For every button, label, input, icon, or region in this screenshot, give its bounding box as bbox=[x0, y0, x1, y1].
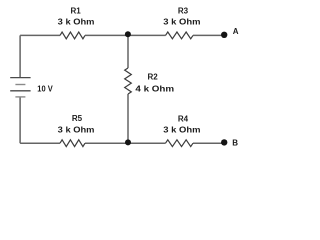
wire R5 to bottom junction bbox=[85, 142, 128, 144]
wire middle vertical upper (top junction to R2) bbox=[127, 35, 129, 68]
resistor R2 bbox=[125, 68, 132, 94]
wire R1 to top junction bbox=[85, 34, 128, 36]
svg-text:3 k Ohm: 3 k Ohm bbox=[163, 125, 200, 134]
svg-text:R4: R4 bbox=[178, 114, 189, 123]
wire R4 to terminal B bbox=[193, 142, 224, 144]
wire R3 to terminal A bbox=[193, 34, 224, 36]
wire top junction to R3 bbox=[128, 34, 166, 36]
junction node bottom bbox=[125, 139, 131, 145]
wire bottom junction to R4 bbox=[128, 142, 166, 144]
svg-text:R3: R3 bbox=[178, 6, 189, 15]
wire left vertical upper (top corner to battery) bbox=[19, 35, 21, 77]
wire left vertical lower (battery to bottom corner) bbox=[19, 97, 21, 143]
svg-text:R2: R2 bbox=[147, 72, 158, 81]
wire top-left horizontal (battery top to R1) bbox=[20, 34, 60, 36]
terminal A dot bbox=[221, 32, 227, 38]
wire middle vertical lower (R2 to bottom junction) bbox=[127, 94, 129, 143]
terminal B dot bbox=[221, 139, 227, 145]
svg-text:B: B bbox=[232, 138, 238, 147]
resistor R4 bbox=[166, 140, 194, 147]
battery plate long lower bbox=[10, 90, 30, 92]
battery plate long top bbox=[10, 77, 30, 79]
svg-text:R5: R5 bbox=[72, 114, 83, 123]
resistor R5 bbox=[60, 140, 85, 147]
resistor R1 bbox=[60, 32, 85, 39]
svg-text:A: A bbox=[233, 27, 239, 36]
resistor R3 bbox=[166, 32, 194, 39]
battery plate short bottom bbox=[15, 96, 25, 98]
svg-text:3 k Ohm: 3 k Ohm bbox=[58, 18, 95, 27]
svg-text:4 k Ohm: 4 k Ohm bbox=[135, 85, 174, 94]
battery plate short upper bbox=[15, 84, 25, 86]
battery V1 10 V bbox=[10, 78, 30, 97]
svg-text:3 k Ohm: 3 k Ohm bbox=[58, 125, 95, 134]
svg-text:10 V: 10 V bbox=[37, 84, 53, 93]
svg-text:3 k Ohm: 3 k Ohm bbox=[163, 17, 200, 26]
junction node top bbox=[125, 31, 131, 37]
svg-text:R1: R1 bbox=[70, 6, 81, 15]
wire bottom-left horizontal (battery bottom to R5) bbox=[20, 142, 60, 144]
